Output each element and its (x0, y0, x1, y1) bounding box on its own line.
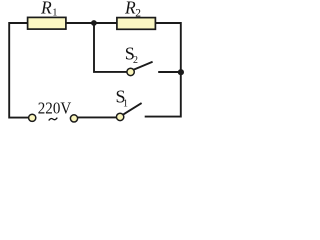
wire: middle branch from top junction to switch S2 (94, 24, 127, 72)
source: AC supply left terminal (29, 114, 36, 121)
resistor R2 label (124, 0, 141, 19)
wire: R1 to R2 (66, 22, 117, 24)
node: junction dot at top wire (91, 20, 97, 26)
switch S2 (127, 62, 153, 76)
wire: R2 to right side, right vertical, bottom-right segment (145, 23, 181, 117)
wire: source to switch S1 (78, 116, 117, 118)
switch S1 label (116, 87, 129, 110)
wire: left loop (top-left segment, left vertical, bottom-left segment) (9, 23, 29, 118)
svg-text:2: 2 (135, 7, 141, 19)
switch S1 (116, 103, 141, 121)
svg-text:2: 2 (133, 55, 138, 66)
svg-text:1: 1 (52, 7, 57, 18)
svg-text:1: 1 (123, 98, 128, 109)
resistor R1 (28, 17, 66, 29)
source: AC supply right terminal (70, 115, 77, 122)
svg-text:220V: 220V (38, 99, 72, 118)
switch S2 label (125, 44, 138, 66)
svg-text:R: R (40, 0, 52, 17)
node: junction dot on right vertical wire (178, 69, 184, 75)
resistor R1 label (40, 0, 57, 18)
source: AC tilde symbol (49, 118, 58, 121)
svg-text:R: R (124, 0, 136, 18)
wire: S2 fixed contact to right junction (158, 71, 181, 73)
resistor R2 (117, 18, 155, 30)
